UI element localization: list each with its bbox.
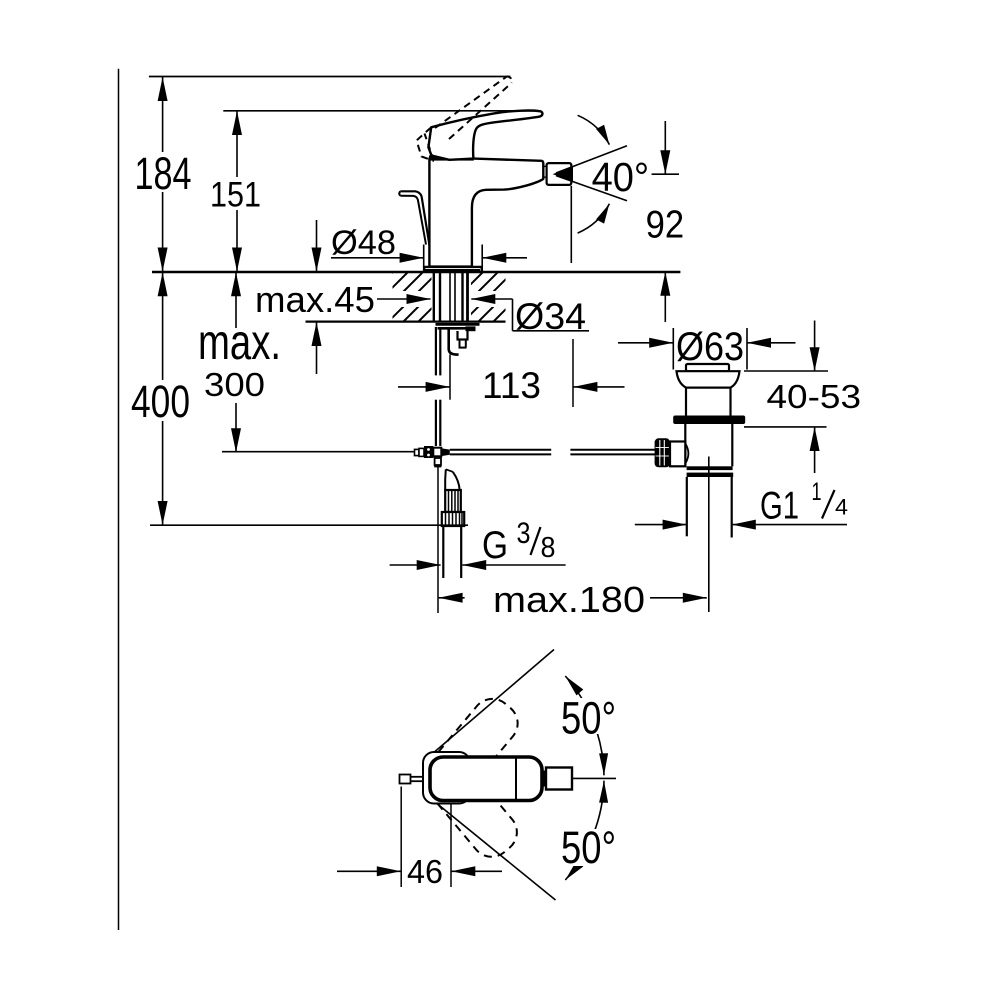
svg-text:G1: G1	[760, 485, 799, 528]
faucet base plate	[424, 266, 481, 268]
faucet body top joint band	[429, 155, 474, 160]
dim O48	[423, 245, 425, 272]
plan: pop-up rod end	[400, 775, 411, 784]
drain flange	[677, 371, 740, 387]
faucet pop-up lever (left hook)	[400, 191, 430, 247]
92 top tick	[652, 173, 679, 175]
plan: faucet body	[430, 757, 542, 801]
countertop deck line	[152, 271, 680, 273]
check valve nut	[442, 512, 464, 526]
svg-text:46: 46	[407, 853, 443, 890]
dim 184	[162, 77, 164, 152]
drain knob connector	[670, 442, 685, 467]
deck hatching right	[395, 265, 610, 330]
svg-text:Ø48: Ø48	[331, 224, 396, 262]
svg-text:3: 3	[517, 517, 531, 550]
mounting washer and nut stack	[436, 323, 480, 326]
svg-text:184: 184	[135, 148, 192, 199]
40-53 reference lines	[744, 370, 828, 372]
svg-text:40-53: 40-53	[767, 379, 862, 416]
dim 400	[162, 272, 164, 380]
dim 46	[400, 787, 402, 888]
dim 40-53	[814, 321, 816, 372]
svg-text:300: 300	[204, 366, 265, 403]
pop-up linkage assembly	[222, 451, 415, 453]
aerator	[547, 163, 572, 185]
supply hose bend	[446, 469, 453, 472]
svg-text:113: 113	[482, 365, 541, 406]
40deg arc upper	[578, 115, 610, 144]
svg-text:8: 8	[541, 532, 556, 564]
dim G3/8	[390, 564, 441, 566]
svg-text:50°: 50°	[561, 822, 616, 873]
400 bottom reference line	[150, 524, 468, 526]
svg-text:max.45: max.45	[255, 279, 375, 320]
check valve body	[445, 490, 461, 512]
plan: dashed handle swing envelope lower (50 deg)	[425, 758, 525, 865]
40deg arc lower	[578, 204, 610, 233]
svg-text:92: 92	[646, 204, 685, 247]
plan: aerator	[542, 771, 546, 787]
drain O-ring seal	[673, 416, 745, 425]
linkage lower stub	[435, 458, 441, 465]
svg-text:G: G	[482, 524, 508, 567]
svg-text:50°: 50°	[561, 693, 616, 744]
shank columns through deck	[432, 273, 472, 322]
dim O63	[672, 328, 674, 370]
dim max.45 thickness arrows	[316, 220, 318, 272]
svg-text:151: 151	[210, 176, 261, 215]
top reference line (184)	[149, 76, 511, 78]
dim max.180	[437, 465, 439, 613]
dim 113	[449, 355, 451, 400]
reference line (151)	[223, 110, 540, 112]
svg-text:40°: 40°	[592, 154, 650, 200]
dim 92	[664, 121, 666, 174]
dim max.300	[235, 272, 237, 328]
plan: dashed handle swing envelope upper (50 deg)	[426, 691, 526, 798]
left border line	[118, 69, 120, 930]
faucet body tower	[429, 159, 543, 267]
deck hatching left	[320, 265, 520, 330]
faucet handle (solid)	[428, 111, 542, 160]
drain body upper	[685, 388, 687, 416]
plan: 50deg arc lower	[565, 781, 604, 880]
svg-text:Ø63: Ø63	[676, 325, 744, 369]
drain plug cap	[686, 364, 729, 371]
drain tailpipe G1 1/4	[686, 477, 688, 536]
spout outlet gap ticks	[543, 165, 546, 167]
horizontal rod to drain (with break)	[450, 449, 551, 451]
G3/8 threaded pipe	[442, 526, 444, 578]
plan: 50deg arc upper	[565, 676, 604, 775]
faucet handle dashed (raised 40 deg)	[435, 76, 507, 128]
plan: 50deg boundary line upper	[432, 650, 555, 755]
spout angle fan lines	[556, 146, 627, 173]
dim 50deg labels	[558, 698, 624, 734]
drain lock rings	[687, 466, 733, 470]
svg-text:1: 1	[812, 478, 822, 506]
dim 151	[236, 111, 238, 177]
spout angle vertex arrow	[553, 167, 573, 182]
plan: 50deg boundary line lower	[432, 800, 556, 901]
dim O34	[471, 294, 495, 304]
handle inner blade line	[480, 113, 548, 123]
plan: centerline	[572, 777, 616, 779]
svg-text:Ø34: Ø34	[515, 296, 586, 337]
aerator-to-deck projection line	[570, 186, 572, 263]
dim G1 1/4	[635, 524, 687, 526]
plan: handle outline	[423, 752, 470, 804]
deck underside line	[306, 321, 506, 323]
svg-text:4: 4	[835, 495, 848, 520]
drain body lower	[684, 424, 686, 466]
svg-text:400: 400	[131, 376, 190, 427]
drain pop-up rod / centerline	[708, 457, 710, 613]
drain side knob (knurled)	[655, 438, 670, 467]
svg-text:max.180: max.180	[493, 579, 645, 620]
svg-text:max.: max.	[198, 314, 281, 370]
pop-up rod below faucet	[435, 327, 437, 375]
